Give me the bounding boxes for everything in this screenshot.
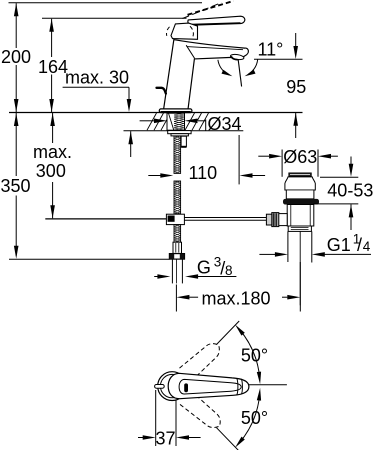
pop-up rod knob (side view): [157, 88, 166, 94]
spout chamfer line: [187, 47, 244, 50]
svg-text:max. 30: max. 30: [65, 67, 129, 87]
aerator: [230, 54, 244, 61]
svg-text:11°: 11°: [258, 40, 284, 60]
waste body: [287, 205, 314, 227]
cartridge neck: [171, 23, 198, 39]
waste tailpiece: [287, 231, 289, 262]
inner circle (top view): [160, 374, 183, 397]
svg-text:Ø63: Ø63: [283, 147, 317, 167]
flexible supply hose (middle part): [174, 181, 181, 214]
neck ghost arcs (dashed): [167, 27, 170, 36]
dimension 164: [49, 19, 54, 32]
svg-text:110: 110: [189, 163, 218, 183]
dimension 350 bottom reference line: [9, 258, 170, 260]
hose ferrule: [173, 242, 182, 253]
svg-text:max.180: max.180: [202, 289, 271, 309]
svg-text:200: 200: [1, 47, 31, 67]
dimension 95: [295, 33, 297, 46]
dimension G1 1/4: [259, 253, 275, 255]
mounting nut: [171, 134, 188, 136]
aerator outlet reference line: [254, 58, 303, 60]
dimension 50° (lower): [217, 428, 240, 450]
svg-text:40-53: 40-53: [327, 181, 373, 201]
spout shoulder line: [186, 45, 194, 58]
handle neutral reference line: [249, 384, 287, 386]
pop-up rod junction: [166, 214, 184, 224]
dimension 164 top reference line: [42, 17, 187, 19]
deck bottom line / O34 underline: [124, 130, 244, 132]
svg-text:G1: G1: [327, 235, 351, 255]
waste side port: [278, 214, 287, 226]
svg-text:300: 300: [36, 161, 66, 181]
threaded shank: [167, 113, 185, 130]
pull-rod end cap: [266, 214, 271, 225]
lever handle (top view): [168, 373, 249, 398]
G3/8 threaded tail: [171, 259, 173, 283]
horizontal pop-up rod left segment: [45, 218, 166, 220]
svg-text:350: 350: [1, 176, 31, 196]
svg-text:8: 8: [225, 263, 233, 278]
horizontal pop-up rod right segment: [184, 217, 266, 219]
svg-text:164: 164: [38, 57, 68, 77]
countertop deck line: [9, 112, 303, 114]
pull-rod knurled nut: [272, 213, 279, 227]
lever top face inner line: [179, 379, 241, 394]
flexible supply hose (lower part): [174, 225, 181, 243]
dimension G3/8: [154, 276, 158, 278]
dimension max.300: [50, 113, 55, 126]
dimension Ø34: [140, 120, 155, 122]
waste lock ring: [288, 226, 311, 231]
dimension 200: [14, 3, 19, 16]
water stream line: [238, 59, 242, 87]
handle rotated -50° (dashed top view): [180, 391, 221, 428]
svg-text:50°: 50°: [241, 408, 268, 428]
dimension 350: [14, 113, 19, 126]
dimension max.180: [175, 285, 177, 312]
dimension 200 top reference line: [9, 2, 203, 4]
mounting washer: [168, 131, 191, 134]
pop-up waste flange: [285, 177, 315, 199]
svg-text:50°: 50°: [241, 346, 268, 366]
dimension 50° (upper): [217, 321, 240, 345]
dimension 110: [148, 175, 160, 177]
dimension Ø63: [258, 155, 269, 157]
flexible supply hose (upper part): [174, 136, 181, 173]
hose nut G3/8: [169, 253, 185, 259]
deck cross-section hatching: [147, 113, 157, 130]
lever end cap lines: [237, 378, 238, 395]
faucet body and spout: [164, 39, 249, 109]
pop-up waste plug cap: [289, 173, 312, 177]
dimension 40-53: [320, 176, 358, 178]
shank thread hatching: [174, 113, 184, 115]
rubber gasket: [283, 199, 319, 205]
escutcheon base: [159, 109, 192, 113]
base circle (top view): [158, 372, 187, 401]
svg-text:95: 95: [286, 77, 306, 97]
pop-up rod (top view): [155, 385, 165, 389]
svg-text:/: /: [357, 235, 362, 255]
lever mark: [184, 383, 188, 392]
svg-text:4: 4: [363, 239, 371, 254]
second hose stub: [181, 136, 186, 147]
handle rotated +50° (dashed top view): [180, 344, 220, 382]
svg-text:max.: max.: [33, 142, 72, 162]
svg-text:Ø34: Ø34: [208, 114, 242, 134]
faucet lever handle (side view): [188, 16, 245, 25]
svg-text:37: 37: [156, 429, 176, 449]
dimension 37: [155, 390, 157, 446]
svg-text:G: G: [197, 258, 211, 278]
lever raised position (dashed): [183, 3, 222, 19]
